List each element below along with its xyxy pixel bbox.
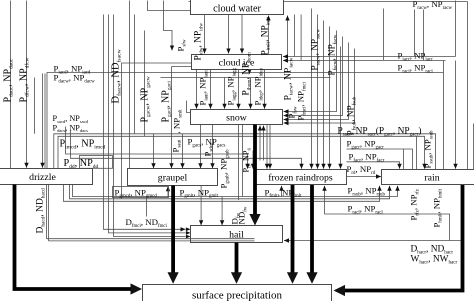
wire ci-snow 1 bbox=[196, 70, 198, 109]
wire top racw bbox=[189, 1, 468, 3]
wire ci-snow 4 bbox=[238, 70, 240, 109]
wire cascade gacr bbox=[347, 149, 413, 170]
wire ci-snow 5 bbox=[250, 78, 252, 109]
box drizzle bbox=[0, 169, 93, 185]
wire gmcd drop bbox=[146, 198, 148, 217]
wire ci stub arrow bbox=[249, 70, 251, 75]
wire corner stub bbox=[383, 9, 385, 61]
box graupel bbox=[128, 169, 218, 186]
box surface precipitation bbox=[143, 285, 332, 301]
wire to frozen top 2 bbox=[317, 15, 319, 169]
wire frozen stub2 bbox=[252, 151, 254, 169]
wire into snow right 3 bbox=[284, 43, 349, 120]
wire into snow right 2 bbox=[284, 37, 343, 116]
thick arrow frozen to surface 2 bbox=[310, 185, 314, 274]
wire loop box gmcd bbox=[113, 187, 169, 198]
wire col5 bbox=[44, 74, 46, 169]
wire right outer bbox=[467, 2, 469, 170]
thick arrow graupel to surface bbox=[171, 186, 175, 274]
wire to graupel left bbox=[129, 1, 131, 170]
wire up into snow a bbox=[259, 126, 261, 161]
wire into snow right 4 bbox=[284, 49, 355, 124]
wire jog to cloud ice bbox=[164, 1, 173, 51]
wire snow down col a bbox=[238, 125, 240, 201]
svg-text:rain: rain bbox=[424, 172, 439, 183]
wire top down a bbox=[414, 10, 416, 57]
box cloud water bbox=[191, 0, 284, 15]
wire rain top b bbox=[416, 136, 418, 169]
box rain bbox=[382, 170, 474, 185]
svg-text:surface precipitation: surface precipitation bbox=[192, 290, 283, 301]
wire down to frozen a bbox=[266, 125, 268, 169]
wire ci-snow 6 bbox=[264, 70, 266, 109]
wire cascade to frozen a bbox=[66, 127, 248, 169]
wire ci-snow 3 bbox=[224, 78, 226, 109]
wire into hail top b bbox=[221, 197, 223, 226]
thick arrow rain to surface bbox=[344, 185, 463, 291]
wire fmlt up bbox=[281, 186, 283, 197]
wire up into cloud water right bbox=[287, 16, 289, 57]
box cloud ice bbox=[192, 55, 282, 70]
svg-text:graupel: graupel bbox=[158, 172, 188, 183]
svg-text:Psacr, NPsacr(Pgacr, NPgacr): Psacr, NPsacr(Pgacr, NPgacr) bbox=[338, 126, 422, 138]
wire top down b bbox=[423, 10, 425, 61]
wire to frozen top 5 bbox=[340, 47, 342, 169]
wire to frozen top 3 bbox=[323, 21, 325, 169]
wire drizzle-rain 1 bbox=[73, 185, 398, 197]
svg-text:snow: snow bbox=[226, 112, 248, 123]
wire over hail b bbox=[49, 240, 255, 242]
wire drizzle-hail b bbox=[48, 185, 50, 241]
wire raci into cloud ice bbox=[283, 60, 446, 62]
wire col4 bbox=[42, 74, 44, 168]
wire rain top outer bbox=[473, 124, 474, 170]
wire drizzle-hail a bbox=[46, 185, 48, 239]
wire snow left jog bbox=[187, 101, 191, 113]
wire over hail a bbox=[47, 238, 255, 240]
wire cloud ice left down bbox=[122, 63, 192, 199]
wire ci left stub bbox=[172, 66, 192, 68]
box frozen raindrops bbox=[255, 170, 347, 185]
wire horiz y77 bbox=[161, 77, 331, 79]
svg-text:frozen raindrops: frozen raindrops bbox=[268, 172, 333, 183]
wire cw down b bbox=[300, 15, 302, 61]
wire gmlt up bbox=[167, 186, 169, 197]
wire to frozen top 4 bbox=[329, 27, 331, 169]
wire into rain left bbox=[347, 176, 382, 178]
wire right col lower bbox=[455, 61, 457, 169]
wire ci-snow 2 bbox=[210, 70, 212, 109]
wire cascade 0 bbox=[54, 134, 436, 170]
wire rain top a bbox=[403, 149, 405, 170]
wire ci-cw melt bbox=[268, 16, 270, 55]
wire to hail 3 bbox=[114, 15, 186, 237]
wire cw down a bbox=[294, 15, 296, 57]
wire into graupel 4 bbox=[200, 125, 202, 169]
wire into cloud water left bbox=[148, 1, 191, 11]
wire to hail 2 bbox=[109, 15, 186, 233]
wire loop box P_dd bbox=[80, 156, 113, 169]
wire right col3 bbox=[443, 61, 445, 170]
thick arrow snow to hail bbox=[253, 125, 257, 216]
wire to frozen top 1 bbox=[311, 9, 313, 169]
wire into hail right bbox=[284, 240, 461, 242]
wire into graupel 1 bbox=[153, 134, 155, 168]
box hail bbox=[191, 226, 283, 243]
svg-text:cloud water: cloud water bbox=[213, 4, 261, 15]
wire into graupel 5 bbox=[212, 125, 214, 169]
svg-text:Pfi, NPfi: Pfi, NPfi bbox=[242, 147, 252, 172]
wire up frozen bottom bbox=[324, 186, 326, 214]
wire cloud-water to drizzle col1 bbox=[10, 1, 12, 169]
wire into graupel 2 bbox=[171, 67, 173, 169]
wire drizzle-rain 2 bbox=[70, 185, 390, 199]
wire into snow right 1 bbox=[284, 31, 337, 112]
wire down to frozen b bbox=[269, 125, 271, 169]
wire col2 bbox=[26, 1, 28, 168]
wire stub b bbox=[144, 31, 146, 137]
wire col3 bbox=[34, 78, 36, 134]
wire cw-ci 3 bbox=[241, 15, 243, 54]
wire to hail 1 bbox=[104, 15, 186, 230]
wire into hail top a bbox=[200, 186, 202, 226]
thick arrow hail to surface bbox=[235, 243, 239, 274]
wire cascade sacr bbox=[58, 136, 425, 168]
svg-text:drizzle: drizzle bbox=[29, 172, 56, 183]
thick arrow drizzle to surface bbox=[15, 185, 132, 290]
wire stub a bbox=[134, 15, 136, 134]
wire cascade to frozen b bbox=[71, 131, 302, 169]
wire snow down col b bbox=[242, 125, 244, 197]
wire cw-ci 2 bbox=[228, 15, 230, 54]
wire cascade facr bbox=[347, 162, 400, 169]
wire right col upper bbox=[455, 1, 457, 57]
box snow bbox=[191, 110, 283, 125]
wire up into snow b bbox=[263, 126, 265, 161]
thick arrow frozen to surface bbox=[291, 185, 295, 274]
wire drizzle-rain 3 bbox=[64, 185, 380, 202]
wire col6 loop bbox=[47, 73, 444, 169]
wire into graupel 3 bbox=[182, 134, 184, 168]
wire racl path bbox=[325, 214, 450, 241]
wire iacr into cloud ice bbox=[283, 56, 456, 58]
wire cw-ci 1 bbox=[204, 15, 206, 54]
